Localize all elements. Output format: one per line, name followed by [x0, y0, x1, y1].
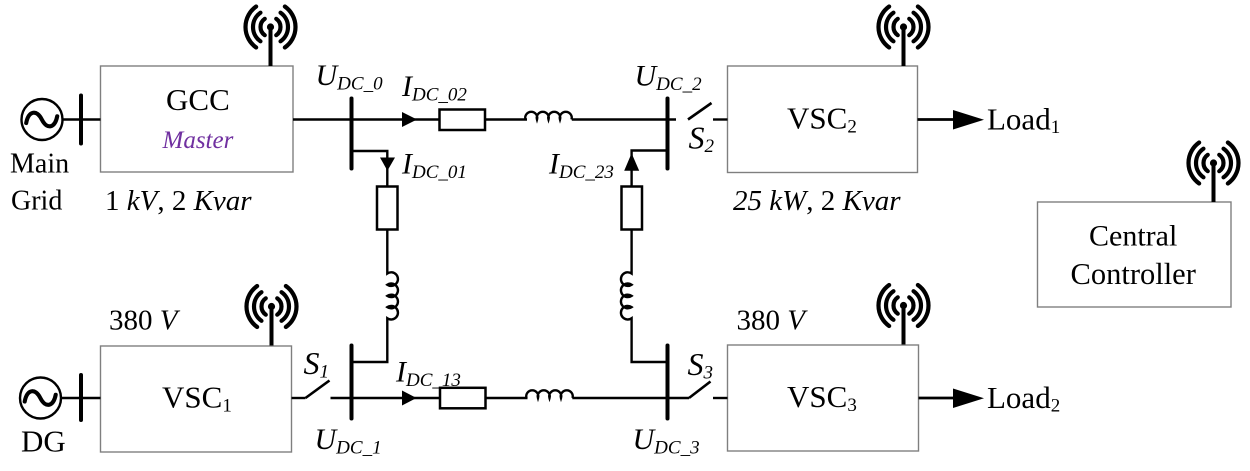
svg-text:UDC_0: UDC_0 — [316, 59, 384, 95]
svg-text:IDC_23: IDC_23 — [548, 148, 614, 184]
svg-text:Load1: Load1 — [987, 102, 1060, 139]
svg-text:UDC_3: UDC_3 — [633, 423, 700, 459]
svg-text:VSC1: VSC1 — [162, 380, 232, 417]
svg-text:Load2: Load2 — [987, 380, 1060, 417]
svg-text:Central: Central — [1089, 220, 1177, 253]
svg-text:S1: S1 — [304, 345, 330, 383]
svg-text:IDC_13: IDC_13 — [395, 356, 461, 392]
svg-text:380 V: 380 V — [109, 305, 181, 337]
svg-text:Grid: Grid — [11, 186, 62, 217]
svg-text:Controller: Controller — [1071, 257, 1196, 291]
svg-text:IDC_02: IDC_02 — [401, 70, 467, 106]
svg-text:GCC: GCC — [166, 82, 230, 117]
svg-text:25 kW, 2 Kvar: 25 kW, 2 Kvar — [733, 185, 901, 217]
svg-text:VSC3: VSC3 — [787, 379, 857, 416]
svg-text:380 V: 380 V — [737, 305, 809, 337]
svg-text:1 kV, 2 Kvar: 1 kV, 2 Kvar — [105, 185, 252, 217]
svg-text:Master: Master — [162, 127, 234, 154]
svg-text:S2: S2 — [689, 120, 715, 158]
svg-text:IDC_01: IDC_01 — [401, 148, 467, 184]
svg-text:VSC2: VSC2 — [787, 101, 857, 138]
svg-text:DG: DG — [21, 424, 66, 459]
svg-text:S3: S3 — [688, 346, 714, 384]
svg-text:UDC_2: UDC_2 — [635, 60, 703, 96]
svg-text:Main: Main — [10, 149, 69, 180]
svg-text:UDC_1: UDC_1 — [315, 423, 382, 459]
